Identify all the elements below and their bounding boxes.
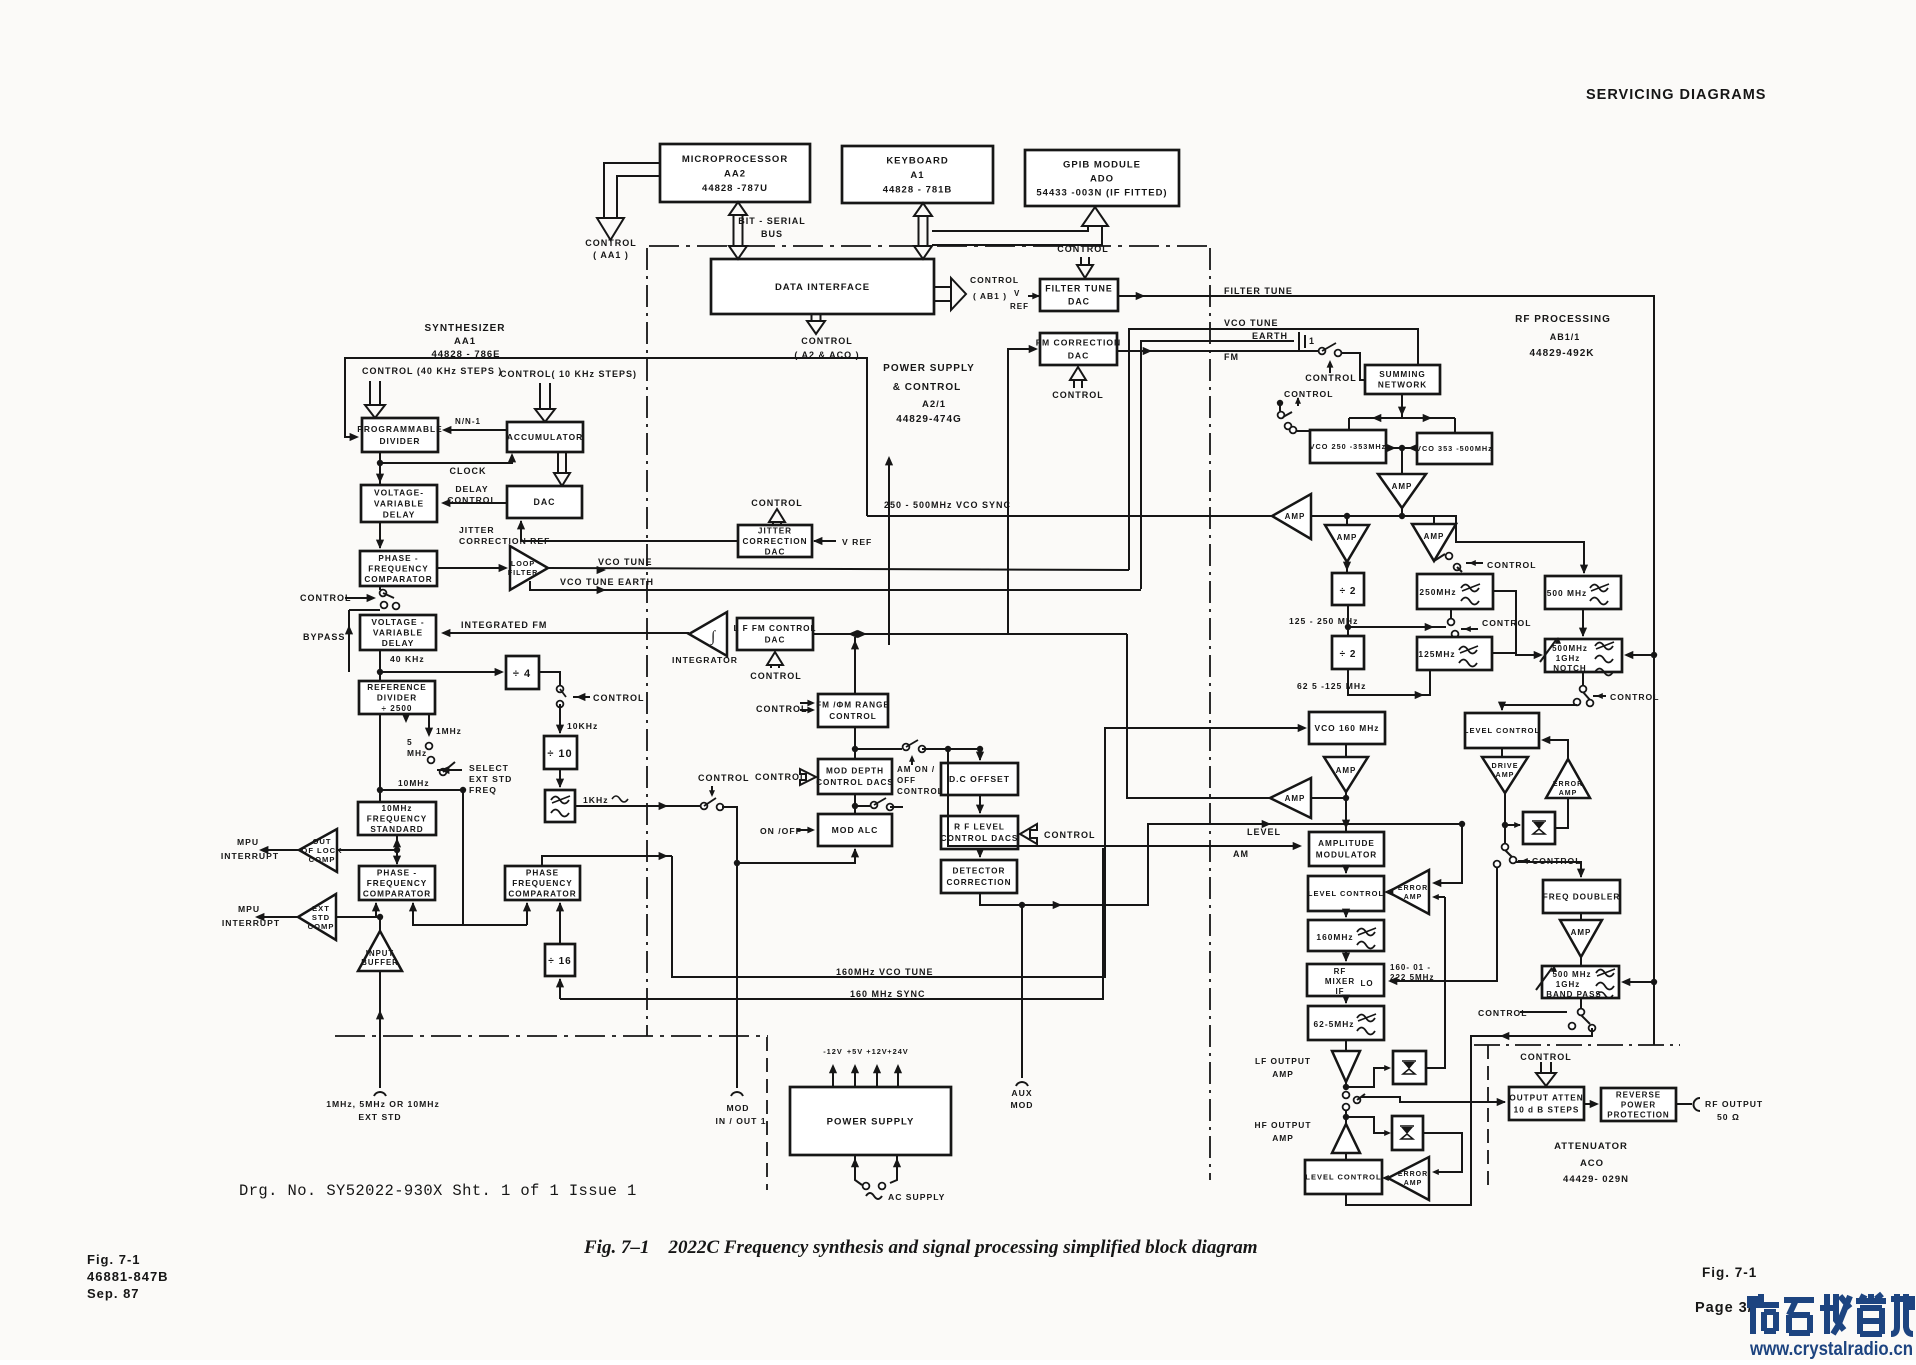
block POWER SUPPLY (790, 1087, 951, 1155)
svg-text:LEVEL CONTROL: LEVEL CONTROL (1308, 889, 1384, 898)
svg-text:DAC: DAC (1068, 351, 1090, 361)
wire bypass path (348, 610, 350, 672)
block PHASE-FREQUENCY COMPARATOR lower-left (359, 866, 435, 900)
svg-text:125 - 250 MHz: 125 - 250 MHz (1289, 616, 1358, 626)
block PROGRAMMABLE DIVIDER (357, 418, 443, 452)
svg-text:( AA1 ): ( AA1 ) (593, 250, 629, 260)
svg-text:FILTER: FILTER (508, 568, 539, 577)
svg-text:ACCUMULATOR: ACCUMULATOR (507, 432, 583, 442)
wire DELAY CONTROL dac to delay (443, 502, 507, 504)
wire 40 KHz output of delay (379, 650, 381, 681)
svg-text:VCO 353 -500MHz: VCO 353 -500MHz (1416, 444, 1493, 453)
svg-text:V REF: V REF (842, 537, 872, 547)
wire FM range control output up to LF FM line (854, 637, 856, 694)
svg-text:Fig. 7-1: Fig. 7-1 (87, 1252, 141, 1267)
triangle LOOP FILTER (508, 546, 548, 590)
wire out of lock comp line (337, 849, 397, 851)
svg-text:1MHz, 5MHz OR 10MHz: 1MHz, 5MHz OR 10MHz (326, 1099, 440, 1109)
svg-text:BUS: BUS (761, 229, 783, 239)
svg-text:÷ 2500: ÷ 2500 (382, 704, 413, 713)
hollow arrow CONTROL into LF FM CONTROL DAC (767, 652, 783, 668)
wire 40kHz to divide-by-4 (380, 671, 502, 673)
svg-text:REF: REF (1010, 302, 1029, 311)
svg-text:MICROPROCESSOR: MICROPROCESSOR (682, 154, 788, 165)
wire synthesizer feedback top line (345, 358, 867, 516)
block JITTER CORRECTION DAC (738, 525, 812, 557)
svg-text:NETWORK: NETWORK (1378, 381, 1427, 390)
svg-text:44828 -787U: 44828 -787U (702, 183, 768, 194)
wire into middle comparator left input (526, 903, 528, 925)
wire INTEGRATED FM into delay (443, 632, 689, 634)
wire ext std junction to comparator (336, 916, 380, 918)
svg-text:BIT - SERIAL: BIT - SERIAL (738, 216, 806, 226)
svg-text:EXT: EXT (312, 904, 330, 913)
svg-text:CONTROL: CONTROL (698, 773, 750, 783)
wire filter tune into band pass (1651, 979, 1657, 985)
svg-text:50 Ω: 50 Ω (1717, 1112, 1740, 1122)
svg-text:250 - 500MHz VCO SYNC: 250 - 500MHz VCO SYNC (884, 500, 1011, 510)
block REVERSE POWER PROTECTION (1601, 1088, 1676, 1121)
block KEYBOARD A1 (842, 146, 993, 203)
block VCO 353-500MHz (1416, 433, 1493, 464)
wire mixer to 62.5MHz filter (1345, 996, 1347, 1003)
svg-text:DETECTOR: DETECTOR (953, 867, 1006, 876)
svg-text:IN / OUT 1: IN / OUT 1 (715, 1116, 766, 1126)
svg-text:JITTER: JITTER (758, 526, 792, 535)
block DAC (507, 486, 582, 518)
svg-text:+24V: +24V (887, 1047, 908, 1056)
block GPIB MODULE ADO (1025, 150, 1179, 206)
wire error amp inputs from detector lines (1434, 896, 1445, 898)
switch at 250MHz filter (1446, 553, 1453, 560)
svg-text:POWER SUPPLY: POWER SUPPLY (883, 363, 975, 374)
bandpass tuning arrow (1536, 968, 1552, 990)
svg-text:EXT STD: EXT STD (358, 1112, 401, 1122)
notch tuning arrow (1540, 640, 1556, 662)
svg-text:CONTROL: CONTROL (750, 671, 802, 681)
svg-text:SERVICING DIAGRAMS: SERVICING DIAGRAMS (1586, 87, 1766, 103)
svg-text:CONTROL: CONTROL (829, 712, 876, 721)
svg-text:MODULATOR: MODULATOR (1316, 851, 1377, 860)
svg-text:FREQUENCY: FREQUENCY (367, 814, 427, 823)
svg-text:SYNTHESIZER: SYNTHESIZER (424, 323, 505, 334)
wire mod junction to MOD ALC (737, 849, 855, 863)
wire AMP output to distribution (1401, 508, 1403, 516)
svg-text:10MHz: 10MHz (382, 804, 413, 813)
wire VCO160 amp junction (1345, 792, 1347, 832)
svg-text:FREQUENCY: FREQUENCY (512, 879, 572, 888)
wire frequency standard to out of lock line (396, 835, 398, 850)
block detector upper right (1523, 812, 1555, 844)
svg-text:DAC: DAC (765, 547, 786, 556)
svg-text:DELAY: DELAY (455, 484, 488, 494)
wire divide-by-16 to comparator (559, 903, 561, 944)
svg-text:FREQ DOUBLER: FREQ DOUBLER (1543, 892, 1621, 901)
block divide by 2 lower (1332, 636, 1364, 669)
svg-text:( AB1 ): ( AB1 ) (973, 291, 1007, 301)
wire detector correction feedback to error amp (980, 824, 1462, 905)
svg-text:AUX: AUX (1011, 1088, 1032, 1098)
svg-text:÷ 2: ÷ 2 (1340, 586, 1357, 597)
svg-text:VCO TUNE EARTH: VCO TUNE EARTH (560, 577, 654, 587)
svg-text:FREQ: FREQ (469, 785, 497, 795)
svg-text:VARIABLE: VARIABLE (374, 498, 424, 508)
block LEVEL CONTROL bottom (1345, 1153, 1347, 1160)
section boundary horizontal dash-dot bottom (335, 1035, 768, 1037)
svg-text:INPUT: INPUT (366, 949, 394, 958)
triangle ERROR AMP 160MHz (1388, 870, 1429, 914)
svg-text:BAND PASS: BAND PASS (1546, 990, 1602, 999)
wire N/N-1 accumulator to divider (445, 429, 507, 431)
block FM/PHIM RANGE CONTROL (816, 694, 890, 727)
svg-text:MHz: MHz (407, 748, 427, 758)
svg-text:÷ 16: ÷ 16 (548, 956, 571, 967)
svg-text:EARTH: EARTH (1252, 331, 1288, 341)
svg-text:REVERSE: REVERSE (1616, 1090, 1661, 1099)
block VOLTAGE-VARIABLE DELAY lower (360, 615, 436, 650)
svg-text:RF PROCESSING: RF PROCESSING (1515, 314, 1611, 325)
hollow arrow CONTROL (AA1) from microprocessor (604, 163, 660, 218)
wire 1kHz filter to mod switch (575, 805, 700, 807)
wire LF FM DAC to junction and FM correction DAC (813, 633, 1127, 635)
svg-text:SUMMING: SUMMING (1379, 370, 1426, 379)
triangle integrator (689, 612, 727, 656)
switch on 1kHz mod line (701, 803, 708, 810)
block divide by 2 upper (1332, 573, 1364, 605)
wire HF junction (1343, 1114, 1349, 1120)
wire VCO TUNE from loop filter (548, 568, 1129, 570)
svg-text:AA1: AA1 (454, 336, 476, 347)
svg-text:INTEGRATOR: INTEGRATOR (672, 655, 738, 665)
svg-text:CONTROL: CONTROL (756, 704, 808, 714)
svg-text:COMPARATOR: COMPARATOR (363, 889, 431, 898)
svg-text:62-5MHz: 62-5MHz (1314, 1019, 1355, 1029)
wire filter to RF mixer (1345, 951, 1347, 961)
svg-text:VCO TUNE: VCO TUNE (1224, 318, 1279, 328)
svg-text:MPU: MPU (238, 904, 260, 914)
svg-text:KEYBOARD: KEYBOARD (886, 155, 948, 166)
switch below drive amp (1502, 844, 1509, 851)
block divide by 10 (544, 736, 577, 769)
svg-text:VOLTAGE -: VOLTAGE - (371, 617, 424, 627)
wire MOD DEPTH to MOD ALC (854, 794, 856, 814)
svg-text:MOD: MOD (726, 1103, 749, 1113)
svg-text:CLOCK: CLOCK (450, 466, 487, 476)
svg-text:OUTPUT ATTEN: OUTPUT ATTEN (1509, 1093, 1583, 1102)
svg-text:46881-847B: 46881-847B (87, 1269, 169, 1284)
svg-text:Sep. 87: Sep. 87 (87, 1286, 140, 1301)
wire 10MHz tap to comparator (380, 790, 463, 925)
triangle AMP to synthesizer sync (1272, 494, 1311, 539)
svg-text:MPU: MPU (237, 837, 259, 847)
watermark crystalradio (1747, 1294, 1913, 1334)
svg-text:INTEGRATED FM: INTEGRATED FM (461, 620, 547, 630)
label AC SUPPLY (866, 1193, 882, 1199)
wire AMP output to LF FM junction riser (1127, 634, 1270, 798)
wire JITTER CORRECTION REF (521, 521, 738, 541)
wire divide-by-4 to 10kHz switch (539, 672, 560, 685)
wire switch to freq doubler (1516, 862, 1581, 877)
block LF FM CONTROL DAC (734, 618, 817, 650)
svg-text:+5V: +5V (847, 1047, 863, 1056)
svg-text:PHASE: PHASE (526, 868, 559, 877)
wire HF to detector box (1346, 1117, 1389, 1133)
label CONTROL at 10kHz switch (573, 696, 590, 698)
svg-text:CONTROL: CONTROL (751, 498, 803, 508)
block FREQ DOUBLER (1543, 880, 1621, 913)
svg-text:CONTROL: CONTROL (1057, 244, 1109, 254)
capacitor on EARTH line (1299, 332, 1305, 350)
wire AUX MOD input (1021, 905, 1023, 1078)
svg-text:PROTECTION: PROTECTION (1607, 1110, 1669, 1119)
svg-text:ADO: ADO (1090, 173, 1114, 184)
wire 160MHz VCO TUNE line (542, 856, 672, 866)
wire reference divider outputs (379, 714, 381, 802)
svg-text:AM ON /: AM ON / (897, 765, 935, 774)
svg-text:L F FM CONTROL: L F FM CONTROL (734, 624, 817, 633)
svg-text:LF OUTPUT: LF OUTPUT (1255, 1056, 1311, 1066)
block 500MHz filter (1545, 576, 1621, 609)
switch below band pass (1580, 998, 1582, 1008)
triangle LF OUTPUT AMP (1345, 1040, 1347, 1051)
svg-text:AMP: AMP (1424, 532, 1445, 541)
svg-text:& CONTROL: & CONTROL (893, 382, 961, 393)
wire RF OUTPUT connector (1676, 1103, 1692, 1105)
svg-text:62 5 -125 MHz: 62 5 -125 MHz (1297, 681, 1366, 691)
svg-text:250MHz: 250MHz (1419, 587, 1456, 597)
svg-text:CONTROL: CONTROL (1487, 560, 1537, 570)
svg-text:DELAY: DELAY (383, 509, 416, 519)
svg-text:COMP: COMP (308, 922, 335, 931)
hollow arrow CONTROL into FILTER TUNE DAC (1077, 257, 1093, 278)
svg-text:160 MHz SYNC: 160 MHz SYNC (850, 989, 926, 999)
boundary vertical dashed near MOD (766, 1037, 768, 1190)
block DATA INTERFACE (711, 259, 934, 314)
wire MPU INTERRUPT lower (258, 916, 298, 918)
wire FM switch to summing network (1341, 353, 1365, 380)
block MICROPROCESSOR AA2 (660, 144, 810, 202)
svg-text:FILTER TUNE: FILTER TUNE (1224, 286, 1293, 296)
svg-text:160MHz VCO TUNE: 160MHz VCO TUNE (836, 967, 934, 977)
svg-text:CONTROL: CONTROL (300, 593, 352, 603)
svg-text:LO: LO (1360, 979, 1373, 988)
svg-text:1MHz: 1MHz (436, 726, 462, 736)
wire 160 MHz SYNC line (559, 979, 561, 999)
svg-text:MOD DEPTH: MOD DEPTH (826, 767, 884, 776)
wire drive amp output and detector tap (1504, 793, 1506, 843)
svg-text:DELAY: DELAY (382, 638, 415, 648)
svg-text:10MHz: 10MHz (398, 778, 430, 788)
block 62.5MHz filter (1308, 1006, 1384, 1040)
wire VCO outputs join (1386, 447, 1417, 449)
svg-text:5: 5 (407, 737, 413, 747)
svg-text:V: V (1014, 289, 1020, 298)
svg-text:160MHz: 160MHz (1316, 932, 1353, 942)
svg-text:CONTROL: CONTROL (447, 495, 497, 505)
svg-text:AMPLITUDE: AMPLITUDE (1318, 839, 1375, 848)
svg-text:CORRECTION REF: CORRECTION REF (459, 536, 550, 546)
svg-text:PHASE -: PHASE - (377, 868, 417, 877)
svg-text:125MHz: 125MHz (1418, 649, 1455, 659)
svg-text:VCO 250 -353MHz: VCO 250 -353MHz (1310, 442, 1387, 451)
wire detector to error amp (1555, 798, 1568, 828)
block FM CORRECTION DAC (1036, 333, 1122, 365)
bus keyboard to data interface (914, 203, 932, 259)
svg-text:CONTROL( 10 KHz STEPS): CONTROL( 10 KHz STEPS) (500, 369, 637, 379)
wire divide2 to divide2 and 125-250 branch (1347, 605, 1349, 636)
svg-text:MOD: MOD (1010, 1100, 1033, 1110)
svg-text:CONTROL: CONTROL (801, 336, 853, 346)
wire level control to 160MHz filter (1345, 911, 1347, 917)
svg-text:AMP: AMP (1285, 794, 1306, 803)
svg-text:FM: FM (1224, 352, 1239, 362)
wire VCO TUNE upper run (1129, 329, 1418, 570)
bus microprocessor to data interface BIT-SERIAL BUS (729, 202, 747, 259)
block 500MHz 1GHz BAND PASS (1580, 957, 1582, 966)
svg-text:DIVIDER: DIVIDER (380, 436, 421, 446)
block VCO 250-353MHz (1310, 430, 1387, 463)
svg-text:CONTROL DACS: CONTROL DACS (816, 778, 894, 787)
wire FILTER TUNE long line to RF section (1118, 296, 1654, 1045)
wire detector HF to error amp bottom (1423, 1133, 1462, 1172)
wire notch switch to level control (1502, 705, 1577, 710)
wire delay to phase-frequency comparator (379, 522, 381, 548)
wire EXT STD input (379, 971, 381, 1088)
wire FM line from FM CORRECTION DAC (1117, 350, 1318, 352)
switch LF/HF output select (1343, 1092, 1350, 1099)
wire FM range to MOD DEPTH (854, 727, 856, 759)
block REFERENCE DIVIDER (359, 681, 435, 714)
svg-text:VCO 160 MHz: VCO 160 MHz (1315, 723, 1380, 733)
svg-text:AMP: AMP (1392, 482, 1413, 491)
svg-text:CONTROL: CONTROL (755, 772, 807, 782)
svg-text:AMP: AMP (1337, 533, 1358, 542)
svg-text:÷ 10: ÷ 10 (547, 748, 572, 760)
svg-text:FREQUENCY: FREQUENCY (367, 879, 427, 888)
svg-text:POWER: POWER (1621, 1100, 1656, 1109)
svg-text:OUT: OUT (312, 837, 331, 846)
svg-text:500 MHz: 500 MHz (1552, 970, 1591, 979)
svg-text:CONTROL: CONTROL (1482, 618, 1532, 628)
block LEVEL CONTROL upper right (1464, 713, 1540, 748)
bus keyboard to GPIB module (932, 226, 1102, 245)
wire VCO TUNE EARTH upper run (1141, 341, 1294, 589)
svg-text:CONTROL: CONTROL (1044, 830, 1096, 840)
triangle AMP below VCO160 (1345, 744, 1347, 757)
block divide by 16 (545, 944, 575, 976)
svg-text:ATTENUATOR: ATTENUATOR (1554, 1141, 1628, 1152)
svg-text:JITTER: JITTER (459, 525, 495, 535)
wire 250/125 filters to notch (1493, 591, 1541, 655)
svg-text:ACO: ACO (1580, 1158, 1604, 1169)
hollow arrow CONTROL into FM CORRECTION DAC bottom (1070, 367, 1086, 388)
svg-text:DAC: DAC (1068, 297, 1090, 307)
block RF MIXER LO IF (1307, 964, 1384, 996)
svg-text:CONTROL DACS: CONTROL DACS (941, 834, 1019, 843)
svg-text:COMPARATOR: COMPARATOR (364, 575, 432, 584)
triangle DRIVE AMP (1501, 748, 1503, 757)
svg-text:CONTROL: CONTROL (897, 787, 944, 796)
svg-text:AA2: AA2 (724, 168, 746, 179)
svg-text:AMP: AMP (1559, 790, 1578, 797)
svg-text:44829-474G: 44829-474G (896, 414, 962, 425)
triangle AMP right filter chain (1433, 516, 1435, 524)
svg-text:FM CORRECTION: FM CORRECTION (1036, 338, 1122, 348)
svg-text:AMP: AMP (1496, 770, 1515, 779)
svg-text:ERROR: ERROR (1398, 885, 1428, 892)
svg-text:÷ 2: ÷ 2 (1340, 649, 1357, 660)
svg-text:44429- 029N: 44429- 029N (1563, 1174, 1629, 1185)
svg-text:1GHz: 1GHz (1556, 980, 1580, 989)
switch AM ON/OFF (855, 748, 902, 750)
wire MPU INTERRUPT upper (262, 849, 299, 851)
svg-text:GPIB MODULE: GPIB MODULE (1063, 159, 1141, 170)
svg-text:54433 -003N (IF FITTED): 54433 -003N (IF FITTED) (1036, 187, 1167, 198)
svg-text:POWER SUPPLY: POWER SUPPLY (827, 1116, 915, 1127)
svg-text:LEVEL CONTROL: LEVEL CONTROL (1464, 726, 1540, 735)
power supply output arrows -12V +5V +12V +24V (832, 1066, 834, 1087)
svg-text:10KHz: 10KHz (567, 721, 598, 731)
wire detector LF up to error amp line (1426, 897, 1445, 1068)
svg-text:INTERRUPT: INTERRUPT (222, 918, 280, 928)
svg-text:INTERRUPT: INTERRUPT (221, 851, 279, 861)
block PHASE-FREQUENCY COMPARATOR upper (360, 551, 437, 586)
triangle AMP left divider chain (1346, 516, 1348, 525)
svg-text:OF LOCK: OF LOCK (301, 846, 342, 855)
svg-text:CONTROL: CONTROL (1284, 389, 1334, 399)
svg-text:DRIVE: DRIVE (1492, 761, 1519, 770)
svg-text:CONTROL: CONTROL (1305, 373, 1357, 383)
svg-text:DATA INTERFACE: DATA INTERFACE (775, 282, 870, 293)
block SUMMING NETWORK (1365, 365, 1440, 394)
triangle OUT OF LOCK COMP (299, 829, 343, 872)
block AMPLITUDE MODULATOR (1309, 832, 1384, 866)
block VCO 160 MHz (1309, 712, 1385, 744)
triangle EXT STD COMP (298, 894, 336, 940)
wire DC offset to RF level DACs (979, 795, 981, 813)
wire summing network output to VCO pair (1401, 394, 1403, 418)
svg-text:DAC: DAC (765, 636, 786, 645)
svg-text:EXT STD: EXT STD (469, 774, 512, 784)
svg-text:AMP: AMP (1404, 894, 1423, 901)
svg-text:Page 3/: Page 3/ (1695, 1300, 1753, 1316)
block 160MHz filter (1308, 920, 1384, 951)
wire filter tune into notch (1651, 652, 1657, 658)
svg-text:AB1/1: AB1/1 (1550, 332, 1581, 342)
wire modulator to level control (1345, 866, 1347, 873)
wire amp to 250MHz switch (1434, 554, 1445, 561)
svg-text:÷ 4: ÷ 4 (513, 668, 531, 680)
svg-text:CONTROL: CONTROL (1610, 692, 1660, 702)
svg-text:AMP: AMP (1285, 512, 1306, 521)
svg-text:Fig. 7-1: Fig. 7-1 (1702, 1265, 1757, 1280)
attenuator boundary vertical dashed (1487, 1045, 1489, 1192)
svg-text:CORRECTION: CORRECTION (742, 537, 807, 546)
svg-text:A2/1: A2/1 (922, 399, 946, 410)
svg-text:AMP: AMP (1404, 1180, 1423, 1187)
wire CLOCK divider to accumulator (379, 452, 381, 485)
svg-text:PHASE -: PHASE - (378, 554, 418, 563)
block VOLTAGE-VARIABLE DELAY upper (361, 485, 437, 522)
svg-text:FREQUENCY: FREQUENCY (368, 564, 428, 573)
svg-text:1: 1 (1309, 336, 1315, 346)
wire 62.5-125MHz out (1348, 669, 1430, 695)
svg-text:Fig. 7–1 2022C Frequency sy: Fig. 7–1 2022C Frequency synthesis and s… (583, 1237, 1258, 1258)
svg-text:44828 - 781B: 44828 - 781B (883, 184, 953, 195)
triangle AMP to left from VCO160 (1270, 778, 1311, 818)
wire switch to divide-by-10 (559, 704, 561, 733)
switch on FM line (1319, 348, 1326, 355)
